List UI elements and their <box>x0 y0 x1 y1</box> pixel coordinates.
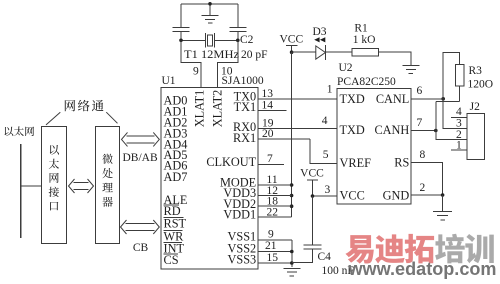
svg-text:15: 15 <box>267 252 279 264</box>
svg-text:5: 5 <box>323 149 329 161</box>
svg-text:3: 3 <box>456 118 462 130</box>
callout line right <box>106 112 117 123</box>
node crystal right <box>236 39 240 43</box>
wire VCC to U2 pin 3 <box>313 195 338 197</box>
label 以太网 <box>5 127 14 136</box>
svg-text:TXD: TXD <box>340 92 365 106</box>
bus arrow interface-microprocessor <box>69 179 75 193</box>
svg-text:C2: C2 <box>240 34 254 46</box>
connector J2 box <box>467 114 484 160</box>
node VCC junction <box>290 50 294 54</box>
svg-text:RS: RS <box>394 155 409 169</box>
svg-text:VREF: VREF <box>340 156 372 170</box>
svg-text:120O: 120O <box>468 78 494 90</box>
svg-text:20: 20 <box>262 128 274 140</box>
label 网络通 <box>65 100 75 111</box>
svg-text:T1 12MHz: T1 12MHz <box>184 49 239 61</box>
wire pin 19 <box>258 128 337 130</box>
watermark 易迪拓 red <box>345 235 373 263</box>
svg-text:U2: U2 <box>339 62 353 74</box>
wire RS pin 8 <box>411 163 443 196</box>
wire VSS down <box>291 240 293 267</box>
svg-text:J2: J2 <box>470 101 480 113</box>
svg-text:RX1: RX1 <box>233 131 256 145</box>
node rail VDD3 <box>290 194 294 198</box>
wire pin 22 <box>258 216 292 218</box>
bus arrow CB <box>121 220 127 234</box>
wire GND pin 2 <box>411 194 443 196</box>
ground top <box>209 4 211 15</box>
svg-text:XLAT1: XLAT1 <box>193 90 207 128</box>
svg-text:VCC: VCC <box>300 168 324 180</box>
block ethernet interface text 以太网接口 <box>50 145 59 155</box>
wire R1 to ground <box>378 52 410 65</box>
svg-text:D3: D3 <box>312 26 326 38</box>
svg-text:CLKOUT: CLKOUT <box>206 155 256 169</box>
node top junction <box>208 2 212 6</box>
svg-text:CANH: CANH <box>374 123 409 137</box>
wire pin 20 <box>258 138 310 140</box>
node rail VDD2 <box>290 204 294 208</box>
svg-text:7: 7 <box>417 117 423 129</box>
svg-text:XLAT2: XLAT2 <box>210 90 224 128</box>
svg-text:VCC: VCC <box>279 33 303 45</box>
svg-text:2: 2 <box>420 182 426 194</box>
node CANH <box>434 129 438 133</box>
svg-text:9: 9 <box>268 228 274 240</box>
resistor R3 <box>456 65 464 87</box>
diode D3 <box>316 46 326 59</box>
svg-text:RST: RST <box>164 217 187 231</box>
wire to pin 10 <box>217 40 238 87</box>
block ethernet interface box <box>41 126 66 243</box>
wire R3 bottom <box>459 86 461 102</box>
svg-text:PCA82C250: PCA82C250 <box>337 76 396 88</box>
wire RX1 to VREF <box>310 139 337 164</box>
svg-text:TXD: TXD <box>340 123 365 137</box>
watermark 培训 gray <box>435 234 465 264</box>
svg-text:9: 9 <box>193 65 199 77</box>
wire pin 7 <box>258 164 284 166</box>
wire CANL pin 6 <box>411 98 443 100</box>
svg-text:14: 14 <box>262 100 274 112</box>
svg-text:AD7: AD7 <box>164 170 188 184</box>
wire pin 18 <box>258 205 292 207</box>
wire pin 14 <box>258 110 286 112</box>
node VSS2 <box>290 250 294 254</box>
wire crystal row <box>181 39 206 41</box>
svg-text:4: 4 <box>456 106 462 118</box>
wire GND down <box>442 195 444 211</box>
J2 pin 1 wire <box>451 149 467 151</box>
svg-text:VDD1: VDD1 <box>223 208 256 222</box>
capacitor C2a left <box>173 26 190 28</box>
wire pin 12 <box>258 195 292 197</box>
D3 arrows <box>314 37 319 42</box>
svg-text:6: 6 <box>417 85 423 97</box>
wire D3 to R1 <box>325 51 352 53</box>
svg-text:7: 7 <box>267 153 273 165</box>
node RS GND <box>441 193 445 197</box>
node CANL <box>441 97 445 101</box>
svg-text:R1: R1 <box>354 22 368 34</box>
svg-text:VSS3: VSS3 <box>227 253 256 267</box>
svg-text:1: 1 <box>456 139 462 151</box>
node VSS3 <box>290 261 294 265</box>
wire pin 13 <box>258 98 337 100</box>
wire pin 21 <box>258 251 292 253</box>
wire CANH pin 7 <box>411 130 436 132</box>
svg-text:DB/AB: DB/AB <box>123 152 158 164</box>
svg-text:20 pF: 20 pF <box>241 49 268 61</box>
node crystal left <box>179 39 183 43</box>
crystal T1 <box>205 33 207 48</box>
ethernet tap wire <box>21 185 42 187</box>
callout line left <box>46 112 60 125</box>
svg-text:GND: GND <box>383 189 410 203</box>
svg-text:4: 4 <box>322 115 328 127</box>
block microprocessor box <box>96 126 120 243</box>
wire VCC rail <box>291 52 293 217</box>
svg-text:3: 3 <box>325 184 331 196</box>
ground U2 <box>433 210 452 212</box>
wire CANL to J2 pin 3 <box>443 99 467 129</box>
wire CANL to R3 top <box>443 52 460 99</box>
svg-text:TX1: TX1 <box>234 100 257 114</box>
svg-text:U1: U1 <box>162 75 176 87</box>
wire crystal loop top <box>180 4 182 28</box>
svg-text:22: 22 <box>267 206 279 218</box>
wire pin 11 <box>258 184 292 186</box>
svg-text:SJA1000: SJA1000 <box>222 75 264 87</box>
svg-text:21: 21 <box>265 240 277 252</box>
ground VSS <box>283 267 300 269</box>
capacitor C2 right <box>229 26 246 28</box>
J2 pin 4 wire <box>451 116 467 118</box>
svg-text:CB: CB <box>133 242 149 254</box>
svg-text:13: 13 <box>262 88 274 100</box>
svg-text:8: 8 <box>420 149 426 161</box>
svg-text:1: 1 <box>327 84 333 96</box>
svg-text:C4: C4 <box>318 251 332 263</box>
wire pin 9 <box>258 239 292 241</box>
svg-text:1 kO: 1 kO <box>353 34 376 46</box>
wire CANH up jog <box>435 102 437 131</box>
resistor R1 <box>352 49 378 56</box>
bus arrow DB/AB <box>122 132 128 146</box>
block microprocessor text 微处理器 <box>102 154 112 164</box>
wire to pin 9 <box>181 40 201 87</box>
svg-text:www.edatop.com: www.edatop.com <box>348 258 497 279</box>
svg-text:R3: R3 <box>469 65 483 77</box>
node VCC C4 <box>311 194 315 198</box>
svg-text:CANL: CANL <box>376 92 409 106</box>
IC U1 SJA1000 box <box>161 88 258 270</box>
IC U2 PCA82C250 box <box>337 89 411 205</box>
svg-text:CS: CS <box>164 253 179 267</box>
ground after R1 <box>402 65 419 67</box>
wire CANH to J2 pin 2 <box>436 131 467 140</box>
wire VCC to D3 <box>292 51 316 53</box>
svg-text:VCC: VCC <box>340 189 365 203</box>
capacitor C4 <box>312 196 314 245</box>
ethernet bus line <box>20 144 22 238</box>
node rail MODE <box>290 183 294 187</box>
wire pin 15 <box>258 262 292 264</box>
